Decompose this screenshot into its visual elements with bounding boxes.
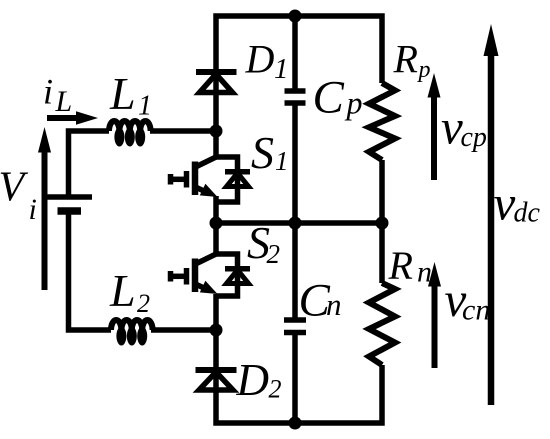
label D1 xyxy=(245,37,289,86)
svg-text:p: p xyxy=(345,85,363,121)
wire: S1 emitter down through mid rail to S2 collector xyxy=(213,196,219,254)
resistor Rn xyxy=(369,283,395,365)
wire: left source rail bottom from battery - plate to bottom-left wire xyxy=(69,211,112,330)
diode D1 xyxy=(196,72,237,93)
wire: left source rail top (battery + plate up to top wire) xyxy=(69,131,110,197)
arrow: source voltage V_i xyxy=(38,127,51,290)
IGBT S1 xyxy=(171,157,218,197)
node: capacitor leg / top rail junction xyxy=(289,10,302,23)
svg-text:R: R xyxy=(393,37,418,82)
wire: mid rail from S1 emitter node to resistor rail xyxy=(216,220,382,226)
label Rp xyxy=(393,37,431,84)
wire: S1 collector from L1 node xyxy=(213,131,219,157)
svg-text:dc: dc xyxy=(514,198,541,229)
svg-text:v: v xyxy=(494,176,516,231)
wire: resistor rail from mid rail down to Rn xyxy=(379,223,385,283)
wire: Cn bottom lead down to bottom rail xyxy=(292,333,298,424)
node: capacitor leg / mid rail junction xyxy=(289,217,302,230)
label v_cn xyxy=(445,272,491,327)
svg-text:S: S xyxy=(251,127,274,178)
svg-text:L: L xyxy=(55,85,73,118)
svg-text:2: 2 xyxy=(267,239,281,269)
arrow: inductor current i_L xyxy=(47,111,98,124)
wire: bottom wire from L2 to switch rail xyxy=(151,327,216,333)
wire: top rail junction to capacitor leg (Cp top lead) xyxy=(292,16,298,91)
wire: switch-leg rail top (x=216, through D1) up to top rail and right to resistor rail xyxy=(216,16,382,131)
svg-text:D: D xyxy=(245,37,275,82)
label Cn xyxy=(299,275,342,327)
label S2 xyxy=(247,217,280,269)
svg-text:L: L xyxy=(109,265,136,316)
wire: bottom rail from D2 leg to resistor rail up to Rn bottom xyxy=(216,294,382,423)
svg-text:D: D xyxy=(236,355,270,405)
inductor L1 xyxy=(109,121,151,147)
label v_cp xyxy=(441,100,487,155)
node: capacitor leg / bottom rail junction xyxy=(289,417,302,430)
svg-text:cn: cn xyxy=(462,294,490,327)
inductor L2 xyxy=(111,320,153,346)
capacitor Cp xyxy=(285,91,306,103)
svg-text:R: R xyxy=(388,243,413,288)
wire: Cp bottom lead down through mid rail to Cn top plate xyxy=(292,103,298,320)
svg-text:p: p xyxy=(417,57,431,83)
node: S1 emitter / mid rail junction xyxy=(210,217,223,230)
battery (source) V_i xyxy=(44,197,93,211)
label Cp xyxy=(313,72,363,124)
label L2 xyxy=(109,265,150,318)
svg-text:i: i xyxy=(43,72,53,112)
label S1 xyxy=(251,127,289,178)
label L1 xyxy=(109,68,152,122)
svg-text:1: 1 xyxy=(275,146,289,176)
anti-parallel diode of S1 xyxy=(216,157,250,202)
anti-parallel diode of S2 xyxy=(216,254,250,296)
arrow: v_cp xyxy=(428,73,441,180)
svg-text:i: i xyxy=(29,193,37,226)
capacitor Cn xyxy=(284,320,306,333)
node: L2 / switch rail junction xyxy=(210,324,223,337)
label v_dc xyxy=(494,176,541,231)
svg-text:2: 2 xyxy=(137,289,150,318)
wire: resistor rail between Rp and mid rail xyxy=(379,160,385,223)
label V_i xyxy=(0,165,37,227)
diode D2 xyxy=(196,370,237,390)
svg-text:cp: cp xyxy=(461,122,487,153)
svg-text:2: 2 xyxy=(269,375,282,404)
label Rn xyxy=(388,243,433,289)
label i_L xyxy=(43,72,72,119)
svg-text:1: 1 xyxy=(274,53,289,85)
svg-text:n: n xyxy=(326,287,342,322)
arrow: v_cn xyxy=(428,262,441,368)
svg-text:1: 1 xyxy=(138,91,152,122)
svg-text:V: V xyxy=(0,165,29,211)
arrow: v_dc xyxy=(484,24,499,405)
svg-text:L: L xyxy=(109,68,136,119)
svg-text:n: n xyxy=(417,256,432,289)
node: resistor rail / mid rail junction xyxy=(376,217,389,230)
resistor Rp xyxy=(369,83,395,160)
wire: top wire from L1 to switch rail xyxy=(150,128,216,134)
IGBT S2 xyxy=(171,254,218,294)
svg-text:C: C xyxy=(313,72,345,124)
node: L1 / switch rail junction xyxy=(210,125,223,138)
label D2 xyxy=(236,355,282,405)
